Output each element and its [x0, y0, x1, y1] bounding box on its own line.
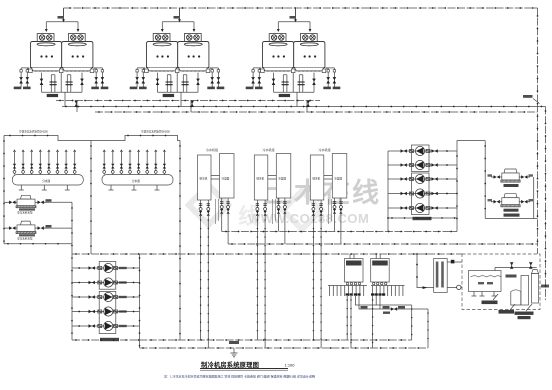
svg-text:冷凝器: 冷凝器	[278, 177, 286, 181]
wire: pump outlet header x72	[71, 202, 73, 340]
chiller unit N2	[254, 147, 290, 348]
wire: right drop	[533, 177, 535, 219]
pump P-B2 makeup left	[4, 221, 72, 240]
wire: bus B2 condenser return	[228, 243, 537, 245]
pump row P3	[72, 292, 140, 301]
wire: condenser line C2	[95, 111, 538, 113]
wire: cooling water supply main top	[64, 7, 538, 9]
wire: riser V1 right	[537, 8, 539, 254]
wire: outlet top	[447, 261, 462, 263]
note line (blue)	[164, 374, 315, 379]
wire: bank right header	[456, 151, 458, 232]
watermark diamond logo 2	[279, 187, 326, 234]
svg-text:制冷机: 制冷机	[200, 177, 208, 181]
pump: dosing pump	[447, 287, 462, 289]
svg-text:冷凝器: 冷凝器	[222, 177, 230, 181]
pump row P4	[72, 307, 140, 316]
title 制冷机房系统原理图	[200, 360, 295, 370]
wire: tank top pipe	[495, 268, 537, 271]
pump row CP2	[388, 160, 457, 169]
wire: bottom line L2	[140, 347, 429, 349]
wire: left riser x4	[3, 136, 5, 244]
wire: mid riser x91	[90, 141, 92, 255]
label 冷却水泵	[413, 217, 432, 220]
wire: bus B1 condenser supply	[222, 231, 457, 233]
wire: bottom link	[485, 218, 537, 220]
enclosure dashed box	[462, 254, 540, 310]
pump group box a	[99, 262, 116, 290]
label 冷冻水泵	[100, 338, 119, 341]
svg-text:冷水机组: 冷水机组	[206, 147, 218, 152]
pump 冷却水补水泵 1	[488, 169, 534, 187]
wire: condenser return collector C1	[62, 106, 546, 108]
pump row P1	[72, 263, 140, 272]
wire: bracket 1	[4, 136, 91, 141]
wire: riser V2 right	[545, 107, 547, 301]
heat exchanger HX1	[328, 254, 367, 296]
dosing tank cylinder	[511, 290, 521, 305]
pump row CP4	[388, 189, 457, 198]
ground: drain	[229, 341, 239, 357]
wire: HX outlet runs	[346, 295, 428, 349]
label 空调冷冻水回水管	[141, 130, 170, 134]
wire: feed riser	[417, 254, 434, 288]
svg-text:冷冻水补水泵: 冷冻水补水泵	[17, 236, 33, 240]
wire: bracket 2	[91, 136, 180, 141]
svg-text:制冷机房系统原理图: 制冷机房系统原理图	[201, 360, 259, 369]
pump group box a	[412, 145, 430, 172]
svg-text:冷冻水补水泵: 冷冻水补水泵	[17, 211, 33, 215]
wire: bank left header	[388, 151, 457, 232]
chiller unit N1	[198, 147, 235, 348]
cooling tower pair CT3	[246, 8, 341, 107]
manifold 集水器 M2	[102, 150, 173, 190]
wire: bank right header	[139, 254, 141, 348]
softener unit 全自动软水器	[434, 259, 448, 293]
manifold 分水器 M1	[12, 150, 83, 190]
filter vessel 1	[521, 276, 529, 306]
svg-text:1:100: 1:100	[285, 363, 296, 368]
pump row CP5	[388, 203, 457, 212]
pump group box b	[99, 292, 116, 334]
pump row P2	[72, 278, 140, 287]
wire: long riser x180	[179, 141, 181, 341]
chiller unit N3	[310, 147, 347, 348]
label 加药装置	[499, 304, 516, 314]
svg-text:冷凝器: 冷凝器	[334, 177, 342, 181]
wire: CT drain stubs to collectors	[76, 101, 308, 113]
pump row CP1	[388, 146, 457, 155]
svg-text:注：1.冷冻水及冷却水管道均按标准图集施工 管材:焊接钢管: 注：1.冷冻水及冷却水管道均按标准图集施工 管材:焊接钢管 卡箍连接 阀门:蝶阀…	[164, 374, 315, 379]
pump 冷却水补水泵 2	[488, 194, 534, 217]
wire: chilled water link x4 to header x72	[4, 243, 72, 245]
svg-text:空调冷冻水回水管DN250: 空调冷冻水回水管DN250	[141, 130, 170, 134]
pump P-B1 makeup left	[4, 195, 72, 214]
label 空调冷冻水供水管	[19, 130, 48, 134]
watermark diamond logo 1	[185, 181, 233, 229]
pump row P5	[72, 321, 140, 330]
svg-text:空调冷冻水供水管DN250: 空调冷冻水供水管DN250	[19, 130, 48, 134]
node: tower basin balance line	[56, 100, 320, 102]
svg-text:制冷机: 制冷机	[312, 177, 320, 181]
pump group box b	[412, 173, 430, 215]
svg-text:制冷机: 制冷机	[256, 177, 264, 181]
label 膨胀定压罐	[515, 304, 534, 319]
heat exchanger HX2	[371, 254, 405, 296]
label 软化水箱	[482, 294, 499, 304]
wire: bus B4 chilled water header	[72, 253, 462, 255]
wire: left drop	[484, 141, 486, 219]
svg-text:冷水机组: 冷水机组	[263, 147, 275, 152]
wire: top link to makeup pumps	[457, 141, 485, 151]
tank 软化水箱	[469, 271, 502, 297]
label DN15 stub	[541, 285, 549, 288]
svg-text:冷水机组: 冷水机组	[319, 147, 331, 152]
label 冷却水 right	[523, 95, 540, 104]
svg-text:WWW.CO188.COM: WWW.CO188.COM	[248, 211, 369, 226]
cooling tower pair CT1	[14, 8, 109, 107]
filter vessel 2 (expansion tank)	[532, 270, 539, 304]
pump row CP3	[388, 174, 457, 183]
cooling tower pair CT2	[130, 8, 225, 107]
wire: bottom line L1	[72, 339, 412, 341]
